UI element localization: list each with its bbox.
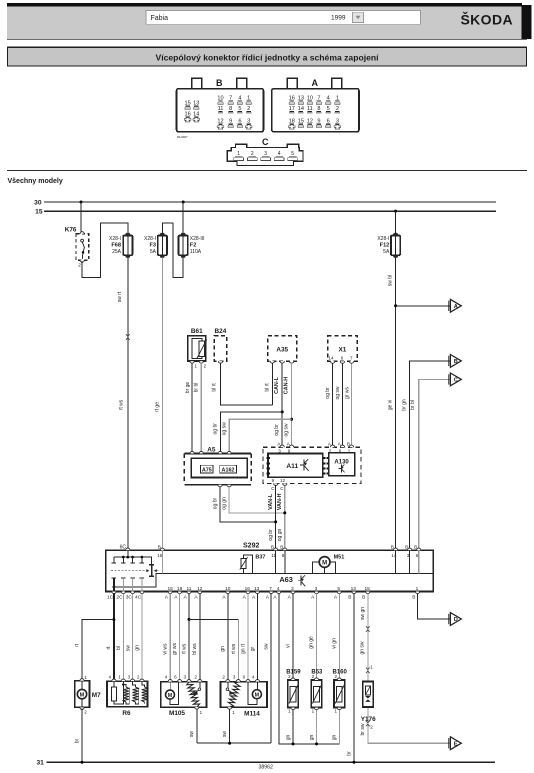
wire F2 to F3 [162,223,183,278]
svg-text:A130: A130 [334,459,349,465]
svg-text:3: 3 [233,675,236,680]
svg-text:15: 15 [168,586,174,592]
mechanical coupling dashed link [111,569,159,572]
svg-text:gn ge: gn ge [309,636,315,649]
switch pack rail [114,557,151,565]
svg-text:M: M [80,692,85,698]
svg-text:ŠKODA: ŠKODA [460,10,513,27]
svg-text:14: 14 [328,355,334,360]
A63 bottom pins 1C-4C [107,592,144,601]
svg-text:25A: 25A [112,249,122,255]
svg-text:br sw: br sw [360,723,366,735]
arrow B [449,355,462,368]
svg-text:A: A [222,595,226,601]
svg-text:6: 6 [243,675,246,680]
resistor B37 [240,554,266,573]
svg-text:B: B [405,545,408,550]
svg-text:vi: vi [285,644,291,648]
svg-text:1: 1 [334,709,337,714]
svg-text:S292: S292 [243,543,259,550]
svg-text:13: 13 [351,586,357,592]
wire bus15 to F12 [395,211,397,234]
header right black block [522,5,532,39]
svg-text:1: 1 [312,709,315,714]
wire CAN-L branch to A5 pin3 (og br) [220,412,282,454]
air flap motor M114 [221,675,268,718]
node on bus 15 feeding F12 [394,210,397,213]
svg-text:br: br [346,751,352,756]
svg-text:2: 2 [291,586,294,592]
svg-text:2: 2 [84,710,87,715]
wire M114 pin1 down (sw) [229,708,231,743]
svg-text:rt ws: rt ws [119,399,125,410]
connector B housing [177,78,264,139]
node CAN-L branch [281,410,284,413]
wire pin B3 to arrow B (br gn) [410,361,450,550]
wire A12 to M105 pin2 (bl ws) [199,594,201,682]
svg-text:rt: rt [106,646,112,650]
relay contact K76 [65,226,89,267]
inline connector on Y176 supply [366,626,370,632]
wire B61-2 to A5 (br bl) [200,363,202,453]
pin B3 top [405,545,412,574]
svg-text:Y176: Y176 [361,716,376,723]
svg-text:E: E [454,741,458,747]
svg-text:gn: gn [220,646,226,652]
arrow E [449,737,462,750]
plug hatches between A11 and A130 [323,457,328,474]
svg-text:2: 2 [78,262,81,267]
wire sw common to motors [197,742,271,744]
wire to arrow A [396,305,450,307]
plug hatches A11 left edge [266,457,269,474]
wire bus30 to F2 [182,202,184,234]
svg-text:gn: gn [309,735,315,741]
wire A5pin to B160 (vi gn) [338,594,340,679]
separator rule [7,169,527,171]
svg-text:M: M [168,693,173,699]
wire A5 bottom og gn to VAN-H [229,487,285,513]
svg-text:gr: gr [250,646,256,651]
header bottom thin rule [7,39,527,40]
wire X1-6 to A130 pin6 (og sw) [342,363,344,446]
internal divider [114,573,433,587]
blower motor M7 [75,675,101,715]
wire B159 pin1 down (gn) [292,708,294,744]
svg-text:4C: 4C [135,595,142,601]
wire CAN-H branch to A5 pin4 (og sw) [229,419,291,453]
arrow D [449,613,462,626]
svg-text:1: 1 [118,675,121,680]
svg-text:A: A [287,442,290,447]
svg-text:C: C [454,378,458,384]
svg-text:og br: og br [274,424,280,436]
switch upper contacts [112,557,144,563]
wire F3 to pin B15 [161,257,163,550]
svg-text:og sw: og sw [221,422,227,435]
wire A15 to M105 pin4 (vi ws) [169,594,171,682]
svg-text:gn: gn [332,735,338,741]
svg-text:15: 15 [365,586,371,592]
svg-text:A: A [266,595,270,601]
svg-text:15: 15 [35,209,43,216]
svg-text:B: B [348,595,351,601]
wire 3C to R6 pin3 (sw) [132,594,134,682]
svg-text:5A: 5A [383,249,390,255]
wire VAN-H to pin B8 [284,486,286,551]
bus 30 wire [44,201,496,203]
svg-text:F2: F2 [190,243,197,249]
svg-text:1: 1 [195,364,198,369]
svg-text:B: B [362,595,365,601]
temperature sensor B160 [333,669,348,713]
svg-text:1: 1 [200,710,203,715]
svg-text:og br: og br [325,387,331,399]
svg-text:A: A [273,595,277,601]
svg-text:MH4907: MH4907 [177,135,188,139]
svg-text:sw bl: sw bl [388,275,394,286]
svg-text:br bl: br bl [194,383,200,393]
control unit A5 housing [184,446,251,486]
pin B15 top [157,545,164,574]
fuse F2 [179,233,205,258]
svg-text:vi gn: vi gn [332,638,338,649]
svg-text:B: B [216,78,223,88]
wire 1C to R6 pin4 (rt) [113,594,115,682]
svg-text:A63: A63 [279,575,293,584]
wire M7 to bus 31 (br) [81,709,83,763]
wire B1 to arrow D [418,594,450,619]
wire VAN-L to pin B11 [275,486,277,551]
node sw junction [228,742,231,745]
svg-text:30: 30 [34,199,42,206]
wire A35-1 (bl rt) [271,363,273,405]
svg-text:A: A [334,595,338,601]
svg-text:4: 4 [165,675,168,680]
coupling element bars [149,565,154,576]
wire M105 pin1 down (sw) [196,708,198,743]
svg-text:A: A [277,442,280,447]
pin B14 top [391,545,398,574]
wire A3 to B53 (gn ge) [316,594,318,679]
svg-text:110A: 110A [190,249,202,255]
wire Y176 pin2 to arrow E (br sw) [368,707,450,743]
svg-text:br gn: br gn [401,399,407,411]
A11 bottom pins 9 and 12 [271,478,287,491]
wire B15 to Y176 (sw gn / gn sw) [367,594,369,682]
sensor B24 [214,328,226,363]
svg-text:sw: sw [125,645,131,652]
svg-text:X28-I: X28-I [109,236,121,242]
pin B6 top [414,545,421,574]
A63 bottom pins A15 A18 A11 A12 [165,586,203,600]
svg-text:sw: sw [264,643,270,650]
wire A10 to M114 pin2 (gn) [227,594,229,682]
svg-text:1: 1 [416,586,419,592]
svg-text:1: 1 [288,709,291,714]
header grey band [7,6,522,39]
wire 2C to R6 pin1 (bl) [122,594,124,682]
node B13 on bus 31 [353,761,356,764]
svg-text:13: 13 [254,586,260,592]
svg-text:X28-I: X28-I [144,236,156,242]
control unit A11 [268,454,323,478]
wire B53 pin1 down (gn) [316,708,318,744]
svg-text:7: 7 [269,586,272,592]
svg-text:2: 2 [222,675,225,680]
svg-text:3: 3 [128,675,131,680]
pin 6C [120,545,130,557]
svg-text:3: 3 [315,586,318,592]
svg-text:B: B [412,595,415,601]
svg-text:M7: M7 [92,692,101,699]
inline connector above Y176 with pin 1 [366,665,373,674]
svg-text:og gn: og gn [277,529,283,542]
svg-text:bl ws: bl ws [192,643,198,655]
svg-text:gn sw: gn sw [360,641,366,654]
svg-text:A: A [311,595,315,601]
svg-text:3C: 3C [126,595,133,601]
node B53 common [315,742,318,745]
svg-text:A: A [312,78,319,88]
svg-text:CAN-L: CAN-L [274,376,280,393]
svg-text:F12: F12 [380,243,390,249]
svg-text:F3: F3 [149,243,156,249]
svg-text:7: 7 [350,355,353,360]
wire F12 to pin B14 (sw bl / ge vi) [395,257,397,550]
svg-text:A: A [165,595,169,601]
svg-text:gr ws: gr ws [172,643,178,655]
svg-text:og br: og br [213,423,219,435]
header input box [146,11,421,25]
svg-text:sw: sw [189,731,195,738]
svg-text:5A: 5A [150,249,157,255]
arrow C [449,373,462,386]
svg-text:10: 10 [225,586,231,592]
svg-text:B: B [158,545,161,550]
svg-text:4: 4 [252,675,255,680]
wire A2 to B159 (vi) [292,594,294,679]
A63 bottom pins A5 B13 B15 [334,586,370,600]
svg-text:B: B [454,359,458,365]
svg-text:sw gn: sw gn [360,607,366,620]
svg-text:X28-III: X28-III [190,236,205,242]
wire bus30 to K76 [80,202,82,234]
fresh air blower M105 [161,675,207,718]
wire A35-3 CAN-H to A11 pin9 [291,363,293,446]
svg-text:1: 1 [232,710,235,715]
wire pin B6 to arrow C (br bl) [419,379,450,550]
svg-text:B: B [280,545,283,550]
svg-text:sw: sw [222,731,228,738]
connector B right pin grid [217,96,252,130]
fuse F3 [144,233,167,258]
svg-text:31: 31 [36,760,44,767]
switch lower contacts [112,577,144,579]
svg-text:F68: F68 [111,243,121,249]
svg-text:bl rt: bl rt [265,383,271,392]
svg-text:M: M [255,692,260,698]
svg-text:br ge: br ge [185,382,191,394]
wire B61-1 to A5 (br ge) [191,363,193,453]
svg-text:A: A [184,595,188,601]
wire K76 to fuse F68 [82,223,128,278]
wire A5 bottom og br to VAN-L [220,487,276,522]
svg-text:VAN-L: VAN-L [268,493,274,510]
header top black bar [7,3,522,6]
node on bus 30 feeding F2 [182,201,185,204]
svg-text:A: A [252,595,256,601]
svg-text:2C: 2C [116,595,123,601]
svg-text:A: A [194,595,198,601]
svg-text:X1: X1 [338,346,346,353]
svg-text:Všechny modely: Všechny modely [8,178,63,185]
A130 top pins 2 6 1 [328,442,354,454]
fuse F68 [109,233,132,258]
svg-text:A162: A162 [222,468,235,474]
svg-text:A75: A75 [202,468,212,474]
wire B160 pin1 down (gn) [338,708,340,744]
svg-text:og gn: og gn [221,497,227,510]
wire A16 to M114 pin6 (gn rt) [247,594,249,682]
svg-text:1: 1 [84,675,87,680]
A63 receiver symbol [298,575,305,586]
svg-text:bl rt: bl rt [212,383,218,392]
connector C pins [234,151,298,160]
temperature sensor B61 [188,328,207,369]
connector C housing [227,137,303,165]
title bar [8,47,527,66]
svg-text:X28-I: X28-I [377,236,389,242]
wire B13 to bus 31 (br) [353,594,355,763]
wire X1-14 to A130 pin2 (og br) [332,363,334,446]
svg-text:5: 5 [337,586,340,592]
svg-text:vi ws: vi ws [163,643,169,655]
inline connector below Y176 with pin 2 [366,721,373,730]
svg-text:6: 6 [174,675,177,680]
connector B left pin group [184,101,199,122]
node M7 on bus 31 [81,761,84,764]
svg-text:M114: M114 [244,711,260,718]
dashed housing around A11+A130 [263,447,361,483]
fuse F12 [377,233,400,258]
svg-text:9: 9 [272,478,275,483]
svg-text:og br: og br [268,529,274,541]
motor M51 [313,555,345,574]
A63 bottom pin A10 [222,586,230,600]
svg-text:2: 2 [194,675,197,680]
svg-text:A11: A11 [286,463,298,470]
node on bus 30 feeding K76 [80,201,83,204]
wire A11 to M105 pin3 (rt ws) [188,594,190,682]
node B159 common [292,742,295,745]
A63 bottom pin A3 [311,586,319,600]
blower resistor R6 [107,675,148,717]
svg-text:4: 4 [108,675,111,680]
svg-text:gn: gn [135,645,141,651]
svg-text:B: B [271,545,274,550]
wire A4 sensor common [279,594,340,744]
svg-text:2: 2 [370,724,373,729]
svg-text:rt ge: rt ge [154,402,160,412]
node VAN-H / og gn [283,511,286,514]
svg-text:B: B [347,442,350,447]
svg-text:6: 6 [341,355,344,360]
connector X1 [328,336,358,364]
control unit A130 [329,453,355,476]
node 1C / M7 branch [112,618,115,621]
bus 31 wire [47,761,496,763]
svg-text:6C: 6C [120,545,127,551]
connector A pin grid [289,96,341,130]
wire A18 to M105 pin6 (gr ws) [179,594,181,682]
svg-text:og sw: og sw [284,423,290,436]
svg-text:4: 4 [277,586,280,592]
svg-text:rt ws: rt ws [181,643,187,654]
svg-text:B24: B24 [215,328,227,335]
svg-text:1999: 1999 [331,15,346,22]
temperature sensor B159 [286,669,301,713]
svg-text:gn: gn [285,735,291,741]
wire A35-2 CAN-L to A11 pin3 [281,363,283,446]
wire 4C to R6 pin2 (gn) [141,594,143,682]
wire A7 ground lead (sw) [270,594,272,744]
temperature sensor B53 [311,669,323,713]
svg-text:A: A [328,442,331,447]
svg-text:og sw: og sw [335,386,341,399]
svg-text:D: D [454,617,458,623]
wire A13 to M114 pin4 (gr) [256,594,258,682]
node VAN-L / og br [274,520,277,523]
svg-text:br: br [74,738,80,743]
wire rt ws branch to M114 pin3 [189,618,238,620]
svg-text:Vícepólový konektor řídicí jed: Vícepólový konektor řídicí jednotky a sc… [155,53,379,63]
connector A housing [272,78,359,132]
svg-text:K76: K76 [65,226,77,233]
node to arrow A [394,304,397,307]
svg-text:CAN-H: CAN-H [284,377,290,394]
module A75 [201,465,214,473]
svg-text:rt: rt [74,643,80,647]
svg-text:A35: A35 [276,346,288,353]
svg-text:og br: og br [212,497,218,509]
wire F68 to pin 6C (sw rt) [127,257,129,550]
control unit A63 housing [106,550,434,591]
svg-text:A: A [174,595,178,601]
svg-text:ge vi: ge vi [388,400,394,411]
svg-text:B: B [414,545,417,550]
svg-text:C: C [271,486,275,491]
control unit A35 [268,336,297,364]
svg-text:38962: 38962 [259,765,274,771]
svg-text:Fabia: Fabia [151,15,169,22]
svg-text:VAN-H: VAN-H [277,493,283,510]
svg-text:B37: B37 [255,554,265,560]
svg-text:A: A [454,304,458,310]
svg-text:11: 11 [187,586,192,592]
svg-text:12: 12 [197,586,203,592]
solenoid valve Y176 [361,681,376,723]
svg-text:bl: bl [116,646,122,650]
A63 bottom pins A16 A13 [243,586,260,600]
svg-text:gn rt: gn rt [241,643,247,654]
svg-text:A: A [338,442,341,447]
svg-text:sw rt: sw rt [117,291,123,302]
node rt ws branch [188,618,191,621]
svg-text:16: 16 [245,586,251,592]
module A162 [220,465,237,473]
svg-text:C: C [280,486,284,491]
